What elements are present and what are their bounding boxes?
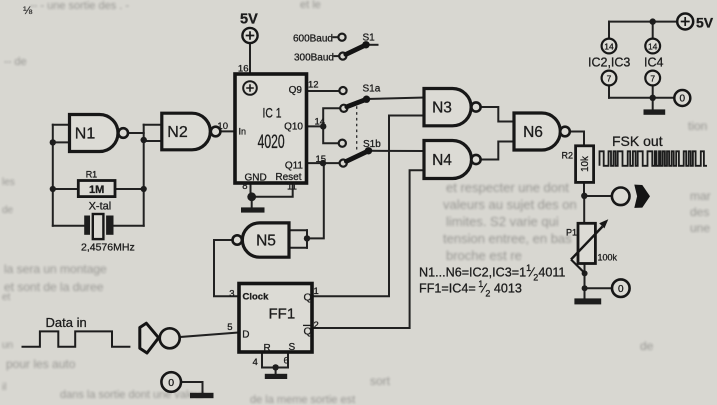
svg-text:FF1: FF1 [269,306,296,323]
svg-text:15: 15 [316,154,327,165]
NAND gate N6 [514,113,570,150]
wire: R-S tie [262,367,288,369]
wire: N5 output to FF1 clock pin 3 [214,240,239,296]
svg-text:de: de [640,339,654,353]
wire: Q10 branch down to S1b upper contact [323,126,338,143]
svg-text:-- de: -- de [4,56,27,68]
FF1 pin number labels [227,286,319,368]
wire: crystal right lead [114,225,144,227]
NAND gate N1 [70,115,128,152]
svg-text:0: 0 [618,284,624,295]
svg-text:broche est re: broche est re [446,248,522,263]
wire: top right 5V rail [609,21,677,23]
wire: S1a pole to N3 input [367,98,425,100]
junction: Q10 node [320,123,326,129]
wire: R1 right lead [115,188,144,190]
svg-text:1: 1 [314,286,319,297]
junction: N1 out / N2 in node [141,137,147,143]
junction: R1 left node [50,186,56,192]
wire: 5V supply drop to IC1 pin 16 [249,43,251,74]
svg-text:R1: R1 [86,170,98,180]
data in waveform [22,331,131,346]
NAND gate N4 [424,141,481,179]
ground bottom left [190,393,214,398]
svg-text:valeurs au sujet des on: valeurs au sujet des on [443,197,577,212]
wire: N2 output to IC1 pin 10 [220,130,235,132]
wire: IC2,IC3 pin 7 down [608,85,610,97]
wire: N6 output to R2 [570,132,584,146]
svg-text:100k: 100k [598,253,618,263]
svg-text:Clock: Clock [243,292,270,303]
wire: N5 input tie [306,230,308,248]
IC1 4020 counter [235,74,307,184]
potentiometer P1 100k [566,219,618,273]
svg-text:0: 0 [680,94,686,105]
wire: FF1 ground stub [275,368,277,374]
svg-text:2,4576MHz: 2,4576MHz [81,242,135,254]
wire: R1 left lead [53,188,79,190]
wire: N1 output to N2 input node [128,132,144,134]
svg-text:14: 14 [604,41,614,51]
svg-text:Q10: Q10 [284,122,303,133]
ground below P1 [574,298,601,304]
wire: top right ground stub [652,98,654,110]
5V supply terminal top left [240,12,258,44]
svg-text:7: 7 [650,73,655,83]
svg-text:IC 1: IC 1 [263,105,282,121]
wire: N4 output to N6 input [480,142,514,160]
svg-text:et sont de la duree: et sont de la duree [4,280,104,294]
switch S1b [339,139,382,167]
svg-text:0: 0 [168,377,174,389]
svg-text:les: les [2,177,15,188]
wire: output node down to P1 [583,196,585,223]
wire: ground node to 0V terminal top right [653,97,675,99]
wire: P1 bottom to ground [584,264,586,299]
0V terminal mid right [612,279,630,297]
wire: FF1 Qbar to N4 lower input [312,170,424,328]
wire: IC1 pin 14 (Q10) [307,125,324,127]
wire: IC1 ground stub [251,197,253,208]
data input terminal [160,328,180,348]
wire: N1 input bottom [53,141,70,143]
wire: IC4 pin 7 down [652,85,654,97]
S1 baud select legend [293,33,375,64]
svg-text:D: D [242,330,249,341]
svg-text:sort: sort [370,374,391,388]
IC4 pin 14 bubble [645,39,660,54]
svg-text:et respecter une dont: et respecter une dont [446,180,569,195]
wire: bottom-left 0V terminal to ground [181,382,203,393]
FSK out waveform [600,151,707,166]
svg-text:In: In [239,127,247,137]
svg-text:5: 5 [227,322,232,333]
wire: IC1 pin 15 (Q11) to S1b contact [307,162,340,164]
IC1 pin number labels [217,64,326,193]
switch S1a [339,84,380,112]
wire: R2 bottom lead [583,182,585,195]
svg-text:tension entree, en bas: tension entree, en bas [443,231,572,246]
svg-text:300Baud: 300Baud [294,53,334,64]
IC2,IC3 pin 7 bubble [602,71,617,86]
wire: N5 input bottom [289,247,307,249]
svg-text:N4: N4 [432,152,452,169]
svg-text:5V: 5V [696,15,714,31]
svg-text:Q: Q [304,326,312,338]
svg-text:10k: 10k [580,156,591,172]
svg-text:S: S [289,342,296,353]
svg-text:6: 6 [284,355,289,366]
wire: pin7 ground rail [609,97,653,99]
wire: 300Baud dash [335,55,340,57]
wire: S1 pole stub [366,44,378,46]
wire: 0V terminal lead mid right [585,287,612,289]
junction: FSK output node [581,193,587,199]
svg-text:1M: 1M [89,184,104,196]
wire: crystal left lead [53,225,84,227]
resistor R2 10k [561,146,593,183]
junction: 0V branch node [582,285,588,291]
wire: FF1 S pin 6 down [287,352,289,368]
crystal X-tal 2.4576MHz [81,201,135,254]
svg-text:limites. S2 varie qui: limites. S2 varie qui [446,214,559,229]
wire: FF1 R pin 4 down [261,352,263,368]
note: gate/IC identification text [419,263,565,298]
junction: P1 wiper node [582,270,588,276]
svg-text:⅛: ⅛ [23,5,33,17]
svg-text:600Baud: 600Baud [293,34,333,45]
svg-text:N3: N3 [432,100,452,117]
resistor R1 1M [78,170,115,197]
svg-text:tion: tion [688,119,707,133]
svg-text:S1a: S1a [363,84,381,95]
svg-text:dans la sortie dont une valeur: dans la sortie dont une valeur [60,389,205,401]
svg-text:FF1=IC4= 1⁄2 4013: FF1=IC4= 1⁄2 4013 [419,279,522,298]
data input arrow [140,323,159,353]
svg-text:14: 14 [648,41,658,51]
svg-text:une: une [690,221,710,235]
ground top right [644,109,666,114]
0V terminal bottom left [161,372,181,392]
wire: N1 input top [53,124,70,126]
svg-text:IC2,IC3: IC2,IC3 [588,56,630,70]
junction: N5 input node [304,235,310,241]
svg-text:4: 4 [253,357,258,368]
wire: Q11 node down to N5 inputs [307,163,324,238]
svg-text:Q9: Q9 [289,85,303,96]
svg-text:mar: mar [690,189,711,203]
svg-text:N6: N6 [523,124,543,141]
FSK output arrow [634,185,650,208]
svg-text:FSK out: FSK out [612,133,663,149]
wire: oscillator left rail (N1 inputs node) [52,125,54,226]
NAND gate N5 (mirrored, output left) [233,223,290,257]
wire: N2 input bottom [144,140,162,142]
IC2,IC3 pin 14 bubble [602,39,617,54]
wire: N2 input rail down to feedback [143,125,145,226]
wire: S1b pole to N4 input [369,150,425,152]
wire: FF1 Q to N3 lower input [312,116,424,297]
svg-text:de la meme sortie est: de la meme sortie est [250,394,355,405]
FSK output terminal [612,188,630,206]
svg-text:10: 10 [217,121,228,132]
svg-text:Q11: Q11 [285,161,304,172]
NAND gate N2 [162,113,221,150]
IC4 pin 7 bubble [645,71,660,86]
svg-text:et le: et le [300,0,321,11]
svg-text:la sera un montage: la sera un montage [4,262,107,276]
top right supply: 5V terminal [677,14,714,31]
svg-text:5V: 5V [240,12,258,28]
svg-text:4020: 4020 [258,132,285,153]
wire: IC1 pin 11 to pin 8 node [252,183,293,197]
junction: 5V rail node top right [650,18,656,24]
svg-text:N1...N6=IC2,IC3=11⁄24011: N1...N6=IC2,IC3=11⁄24011 [419,263,565,282]
junction: Q11 node [320,160,326,166]
svg-text:-- - une sortie des . -: -- - une sortie des . - [30,0,129,12]
junction: FF1 R-S node [272,364,278,370]
svg-text:16: 16 [238,64,249,75]
svg-text:un: un [2,340,13,351]
wire: data input terminal to FF1 D pin 5 [180,333,239,338]
svg-text:pour les auto: pour les auto [6,357,76,371]
ground below IC1 [241,207,265,212]
svg-text:14: 14 [315,117,326,128]
wire: IC1 pin 12 (Q9) to S1a contact [307,90,340,92]
svg-text:Q: Q [304,292,312,304]
svg-text:Data in: Data in [46,315,87,330]
wire: N5 input top [289,229,307,231]
svg-text:GND: GND [245,173,267,184]
svg-text:il: il [2,382,6,393]
NAND gate N3 [424,89,481,126]
flip-flop FF1 [239,284,312,355]
wire: 600Baud dash [334,36,339,38]
svg-text:X-tal: X-tal [89,201,112,213]
svg-text:N2: N2 [167,124,188,141]
junction: ground rail node top right [650,95,656,101]
ganged switch coupling dashed line [356,101,358,152]
junction: N1 input node [50,139,56,145]
svg-text:12: 12 [308,80,319,91]
svg-text:de: de [2,205,14,216]
svg-text:11: 11 [287,182,297,193]
svg-text:R2: R2 [561,151,573,161]
svg-text:des: des [690,205,709,219]
svg-text:N1: N1 [75,126,96,143]
svg-text:8: 8 [242,181,247,192]
svg-text:R: R [264,343,271,354]
svg-text:P1: P1 [566,228,577,238]
0V terminal top right [674,90,690,106]
wire: Q10 branch up to S1a lower contact [323,108,340,126]
wire: N3 output to N6 input [480,107,514,122]
junction: R1 right node [141,186,147,192]
wire: rail to IC4 pin 14 [652,22,654,39]
wire: N2 input top [144,124,162,126]
wire: output node to FSK terminal [584,195,612,197]
wire: rail to IC2,IC3 pin 14 [608,22,610,39]
svg-text:7: 7 [607,73,612,83]
svg-text:2: 2 [314,320,319,331]
junction: IC1 pin8/11 ground node [247,192,256,201]
svg-text:N5: N5 [256,233,276,250]
svg-text:3: 3 [229,289,234,300]
wire: IC1 pin 8 down [250,183,252,197]
ground below FF1 [265,374,287,379]
svg-text:IC4: IC4 [644,56,664,70]
